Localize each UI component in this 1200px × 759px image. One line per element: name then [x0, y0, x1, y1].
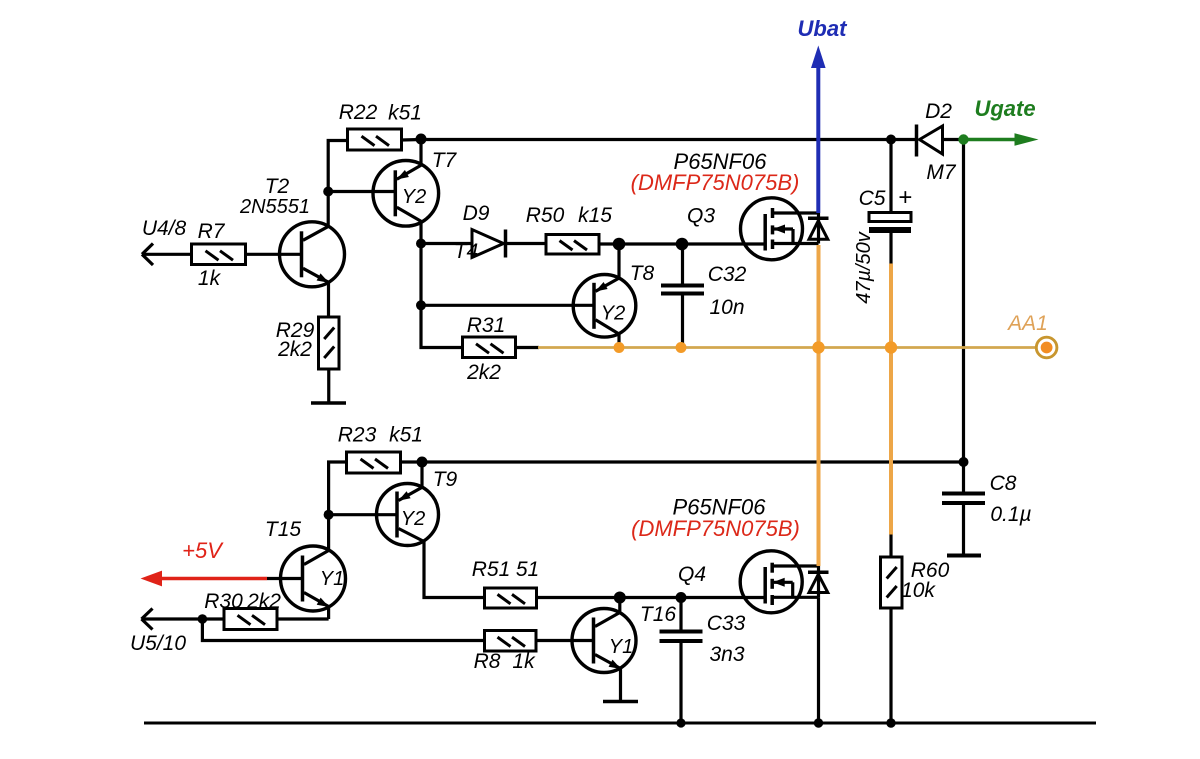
svg-text:0.1µ: 0.1µ — [990, 503, 1031, 526]
wire T16 collector riser — [618, 598, 621, 613]
svg-text:Y1: Y1 — [320, 568, 344, 590]
junction node phase column / AA1 (orange) — [812, 341, 824, 353]
svg-text:Y2: Y2 — [401, 508, 425, 530]
wire R60 top stem — [889, 535, 892, 558]
svg-text:T2: T2 — [265, 175, 290, 198]
junction node T2 collector / R22 / T7 base — [323, 187, 333, 197]
wire T15 emitter drop — [327, 607, 330, 620]
svg-text:C8: C8 — [990, 472, 1017, 495]
resistor R60 — [881, 557, 903, 608]
junction node C33 / Q4 gate — [676, 592, 687, 603]
wire node A column (T7 collector to R31) — [421, 244, 463, 348]
wire T8 emitter riser — [617, 244, 620, 278]
svg-text:R8: R8 — [474, 650, 501, 673]
svg-text:2N5551: 2N5551 — [239, 196, 310, 218]
ground (R29) — [311, 401, 346, 405]
wire Q4 source to bus — [817, 597, 820, 723]
junction node T7 emitter / top rail — [416, 134, 427, 145]
wire T9 base — [329, 513, 397, 516]
svg-text:Q4: Q4 — [678, 563, 706, 586]
svg-text:k51: k51 — [388, 102, 422, 125]
wire AA1 net (gold) — [538, 346, 1036, 349]
wire ground bus — [144, 722, 1096, 725]
resistor R30 — [224, 609, 277, 630]
wire T2 base — [246, 253, 302, 256]
wire R51 right to Q4 gate — [537, 596, 766, 599]
svg-text:+5V: +5V — [182, 538, 224, 563]
svg-text:U5/10: U5/10 — [130, 632, 186, 655]
wire T9 collector to R51 — [424, 542, 485, 598]
svg-text:T8: T8 — [630, 262, 655, 285]
node U4/8 arrow — [142, 244, 192, 266]
transistor T7 — [373, 161, 439, 227]
transistor T9 — [377, 484, 439, 546]
junction node C5 column / AA1 (orange) — [885, 341, 897, 353]
power Ubat arrow — [811, 46, 826, 214]
wire R60 bottom to bus — [889, 608, 892, 723]
wire Ugate column to lower rail — [962, 140, 965, 463]
junction node rail / C5 — [886, 135, 896, 145]
svg-text:R31: R31 — [467, 314, 506, 337]
svg-text:T7: T7 — [432, 149, 458, 172]
svg-text:R50: R50 — [526, 204, 565, 227]
svg-text:2k2: 2k2 — [277, 338, 312, 361]
svg-text:10n: 10n — [709, 296, 744, 319]
svg-text:3n3: 3n3 — [709, 643, 744, 666]
junction node R50 / T8 emitter — [613, 238, 626, 251]
svg-text:C32: C32 — [708, 263, 747, 286]
resistor R7 — [192, 244, 246, 265]
transistor T8 — [573, 275, 636, 338]
junction node T8 base tap — [416, 300, 426, 310]
junction node C33 / bus — [676, 718, 685, 727]
wire T2 emitter drop — [327, 282, 330, 317]
wire T16 emitter to ground — [619, 669, 622, 702]
capacitor C32 — [661, 244, 704, 344]
capacitor C33 — [660, 598, 703, 724]
svg-text:Ubat: Ubat — [798, 16, 849, 41]
resistor R51 — [485, 588, 537, 608]
wire T9 emitter riser — [420, 462, 423, 487]
wire T7 emitter riser — [419, 140, 422, 166]
svg-text:51: 51 — [516, 558, 539, 581]
svg-text:1k: 1k — [512, 650, 536, 673]
wire lower rail — [401, 460, 964, 463]
resistor R50 — [546, 235, 599, 255]
svg-text:47µ/50v: 47µ/50v — [853, 231, 875, 304]
mosfet Q4 — [740, 551, 828, 613]
mosfet Q3 — [741, 198, 829, 260]
transistor T15 — [267, 546, 346, 611]
capacitor C8 — [942, 462, 985, 556]
transistor T2 — [280, 222, 345, 287]
junction node T15 collector / T9 base — [324, 510, 334, 520]
node U5/10 arrow — [142, 609, 225, 630]
wire R22 left hook to node T2 collector — [328, 141, 348, 192]
wire T7 collector drop — [419, 221, 422, 243]
junction node U5/10 / R30 — [198, 614, 208, 624]
wire C5 minus to R60 (orange) — [889, 264, 893, 535]
junction node R51 / T16 collector — [614, 592, 626, 604]
diode D9 — [472, 230, 546, 258]
wire D9 anode — [421, 242, 472, 245]
junction node C32 / AA1 (orange) — [676, 342, 687, 353]
svg-text:k15: k15 — [578, 204, 612, 227]
wire R30 right to T15 emitter — [277, 617, 329, 620]
ground (T16) — [603, 700, 638, 704]
svg-text:T4: T4 — [454, 240, 479, 263]
svg-text:T16: T16 — [640, 603, 677, 626]
resistor R23 — [347, 452, 401, 473]
svg-text:(DMFP75N075B): (DMFP75N075B) — [631, 516, 800, 541]
wire U5/10 lower branch to R8 — [202, 619, 484, 641]
svg-text:(DMFP75N075B): (DMFP75N075B) — [631, 170, 800, 195]
wire R22 right to rail junction — [402, 138, 422, 142]
svg-text:AA1: AA1 — [1006, 312, 1048, 335]
svg-text:R7: R7 — [198, 220, 226, 243]
wire phase column Q3 source to Q4 drain (orange) — [817, 245, 821, 566]
resistor R22 — [348, 129, 402, 150]
power +5V arrow — [141, 571, 268, 587]
svg-text:2k2: 2k2 — [466, 361, 501, 384]
svg-text:1k: 1k — [198, 267, 222, 290]
svg-text:T9: T9 — [433, 468, 458, 491]
svg-text:C33: C33 — [707, 612, 746, 635]
svg-text:2k2: 2k2 — [246, 590, 281, 613]
transistor T16 — [536, 609, 636, 673]
wire T7 base — [328, 190, 395, 193]
junction node C32 / Q3 gate wire — [676, 238, 689, 251]
wire T8 base — [421, 304, 594, 307]
svg-text:Q3: Q3 — [687, 205, 715, 228]
resistor R31 — [463, 337, 516, 358]
junction node R60 / bus — [886, 718, 895, 727]
junction node Q4 source / bus — [814, 718, 823, 727]
capacitor C5 — [869, 140, 911, 264]
svg-text:R30: R30 — [204, 590, 243, 613]
svg-text:Ugate: Ugate — [974, 96, 1035, 121]
svg-text:U4/8: U4/8 — [142, 217, 187, 240]
wire R23 left hook — [329, 462, 348, 515]
svg-text:D9: D9 — [463, 202, 490, 225]
svg-text:M7: M7 — [926, 161, 956, 184]
svg-text:Y2: Y2 — [601, 303, 625, 325]
wire T15 collector riser — [327, 515, 330, 551]
node AA1 terminal ring — [1036, 337, 1057, 358]
junction node T7 collector / D9 — [416, 239, 426, 249]
svg-text:T15: T15 — [265, 518, 302, 541]
svg-text:C5: C5 — [859, 187, 886, 210]
wire R31 right stub — [516, 346, 540, 349]
wire T8 collector stub — [617, 334, 620, 344]
wire R29 to ground — [327, 369, 330, 403]
junction node lower rail / C8 — [959, 457, 969, 467]
svg-text:R23: R23 — [338, 424, 377, 447]
svg-text:k51: k51 — [389, 424, 423, 447]
svg-text:R22: R22 — [339, 101, 378, 124]
junction node T8 collector / AA1 (orange) — [614, 342, 625, 353]
svg-text:10k: 10k — [901, 579, 936, 602]
svg-text:R51: R51 — [472, 558, 511, 581]
svg-text:Y1: Y1 — [609, 636, 633, 658]
wire T2 collector riser — [327, 192, 330, 227]
svg-text:+: + — [898, 184, 912, 211]
resistor R8 — [485, 631, 537, 652]
wire top rail — [421, 138, 916, 141]
wire R50 right to Q3 gate — [599, 242, 765, 245]
node Ugate arrow — [958, 133, 1038, 146]
junction node R23 / T9 emitter / lower rail — [417, 457, 428, 468]
svg-text:Y2: Y2 — [402, 186, 426, 208]
resistor R29 — [319, 317, 340, 369]
diode D2 — [917, 125, 964, 157]
svg-text:D2: D2 — [925, 100, 952, 123]
